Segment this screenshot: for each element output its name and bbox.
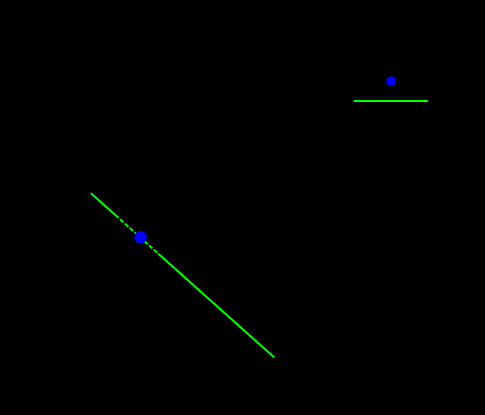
dashed green sloped line, middle segment: [119, 218, 159, 254]
horizontal green line (top right): [354, 100, 428, 102]
solid green sloped line, lower segment: [158, 254, 274, 358]
blue data point above horizontal line: [386, 76, 396, 86]
blue data point on sloped line: [134, 231, 147, 244]
solid green sloped line, upper segment: [91, 193, 119, 218]
